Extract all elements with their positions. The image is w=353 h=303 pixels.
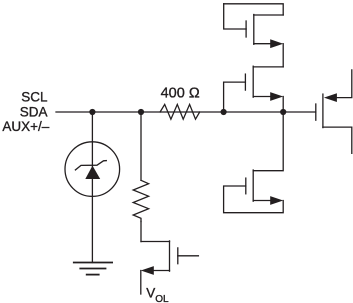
svg-text:VOL: VOL [146,286,169,303]
transistor Q2 (middle, gate to bus) [224,66,284,112]
node: junction dot at resistor branch [138,109,144,115]
svg-text:SCL: SCL [21,89,48,104]
wire: resistor branch vertical lower [140,222,142,242]
resistor R2 (vertical) [133,180,148,221]
zener diode D1 symbol [75,161,106,179]
node: junction dot at Q2 source / Q4 drain [280,109,286,115]
transistor Q5 (bottom left output NMOS, mirrored) [141,241,199,294]
wire: resistor branch vertical upper [140,112,142,180]
svg-text:400 Ω: 400 Ω [161,86,200,102]
zener diode D1 circle [65,142,120,197]
transistor Q1 (top, diode connected) [224,4,284,67]
wire: main SDA bus line [56,111,316,113]
node: junction dot at Q2 gate [221,109,227,115]
node: junction dot at zener branch [89,109,95,115]
wire: zener branch vertical [91,112,93,263]
svg-text:SDA: SDA [20,104,48,119]
transistor Q4 (bottom right, gate tied to source) [224,112,284,213]
ground [74,263,112,275]
resistor R1 400 ohm (horizontal) [160,104,200,119]
svg-text:AUX+/–: AUX+/– [2,119,49,134]
transistor Q3 (right edge) [316,70,352,153]
